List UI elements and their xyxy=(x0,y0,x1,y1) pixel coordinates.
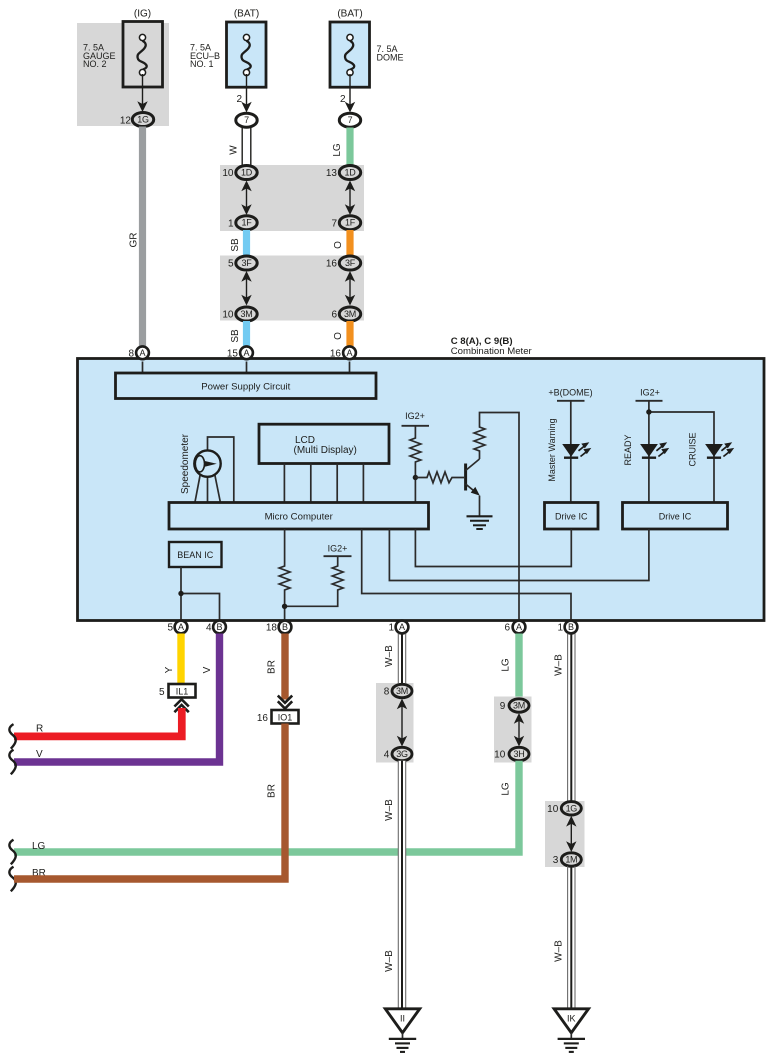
svg-text:B: B xyxy=(282,622,288,632)
svg-text:A: A xyxy=(178,622,184,632)
svg-text:A: A xyxy=(399,622,405,632)
svg-text:BR: BR xyxy=(267,784,278,798)
svg-text:A: A xyxy=(346,348,352,358)
svg-text:8: 8 xyxy=(384,687,390,698)
svg-text:13: 13 xyxy=(326,168,338,179)
wire fuse F1 to connector 1G xyxy=(142,74,144,109)
wire O upper xyxy=(346,230,353,257)
svg-text:IL1: IL1 xyxy=(176,686,189,696)
svg-text:Combination Meter: Combination Meter xyxy=(451,346,533,357)
svg-text:10: 10 xyxy=(222,168,234,179)
svg-text:10: 10 xyxy=(547,804,559,815)
resistor R4 below micro computer xyxy=(279,529,290,621)
svg-text:DOME: DOME xyxy=(377,52,404,62)
wire fuse F3 pin 2 xyxy=(349,74,351,110)
svg-text:5: 5 xyxy=(167,623,173,634)
svg-text:(BAT): (BAT) xyxy=(234,9,259,20)
fuse F1 7.5A GAUGE NO.2 xyxy=(83,43,116,70)
squiggle V end xyxy=(9,750,15,775)
wire W-B column 2 (right) upper xyxy=(568,634,575,803)
wire LG lower to left edge xyxy=(14,761,519,852)
svg-text:3M: 3M xyxy=(241,309,253,319)
wire BEAN IC to pins 5A / 4B xyxy=(181,567,220,621)
wire BR (brown) upper xyxy=(281,634,288,700)
fuse F3 body xyxy=(330,22,370,87)
svg-text:6: 6 xyxy=(504,623,510,634)
LCD (Multi Display) box xyxy=(259,424,389,463)
svg-text:W–B: W–B xyxy=(554,940,565,962)
wire BR lower crossing over LG xyxy=(14,724,285,880)
svg-text:CRUISE: CRUISE xyxy=(688,432,698,466)
svg-text:5: 5 xyxy=(228,259,234,270)
junction block J/B gray background upper xyxy=(220,165,364,231)
svg-text:(Multi Display): (Multi Display) xyxy=(294,445,357,456)
LED D3 cruise xyxy=(705,442,734,458)
svg-text:W–B: W–B xyxy=(384,645,395,667)
svg-text:BR: BR xyxy=(267,660,278,674)
svg-text:1G: 1G xyxy=(566,803,578,813)
svg-text:Speedometer: Speedometer xyxy=(180,433,191,494)
svg-text:Drive IC: Drive IC xyxy=(555,511,588,521)
svg-text:Micro Computer: Micro Computer xyxy=(265,511,334,522)
svg-text:3F: 3F xyxy=(242,258,253,268)
svg-text:GR: GR xyxy=(129,233,140,248)
svg-text:1: 1 xyxy=(388,623,394,634)
svg-text:1F: 1F xyxy=(345,218,356,228)
ground II xyxy=(385,1009,419,1033)
svg-text:1F: 1F xyxy=(242,218,253,228)
svg-text:1G: 1G xyxy=(137,115,149,125)
arrows into IO1 xyxy=(278,696,292,703)
svg-text:IG2+: IG2+ xyxy=(640,388,660,398)
svg-text:BEAN IC: BEAN IC xyxy=(177,550,214,560)
svg-text:Master Warning: Master Warning xyxy=(547,418,557,481)
squiggle BR end xyxy=(9,867,15,892)
svg-text:3G: 3G xyxy=(396,749,408,759)
squiggle R end xyxy=(9,724,15,749)
resistor R2 horizontal to transistor base xyxy=(415,472,464,483)
arrow 3M-3H xyxy=(518,717,520,744)
node junction dot xyxy=(413,475,418,480)
arrows into IL1 xyxy=(174,699,188,706)
wire V (violet) xyxy=(14,634,220,763)
resistor R3 collector xyxy=(474,413,519,622)
svg-text:15: 15 xyxy=(227,348,239,359)
junction gray block 3M/3G xyxy=(376,683,414,763)
svg-text:16: 16 xyxy=(326,259,338,270)
wire W-B column 2 lower xyxy=(568,866,575,1007)
wire drive IC1 to micro computer xyxy=(415,529,571,567)
svg-text:A: A xyxy=(516,622,522,632)
ground (internal) xyxy=(479,496,481,517)
svg-text:A: A xyxy=(243,348,249,358)
wire W (white) xyxy=(242,128,251,167)
svg-text:LG: LG xyxy=(32,841,46,852)
svg-text:W: W xyxy=(229,145,240,155)
svg-text:NO. 2: NO. 2 xyxy=(83,59,107,69)
svg-text:7: 7 xyxy=(348,115,353,125)
resistor R1 vertical xyxy=(410,426,421,503)
wire SB lower xyxy=(243,321,250,346)
drive IC box 2 xyxy=(623,503,728,530)
wires LCD to micro computer xyxy=(284,464,363,503)
svg-text:IG2+: IG2+ xyxy=(328,544,348,554)
svg-text:3: 3 xyxy=(553,855,559,866)
svg-text:5: 5 xyxy=(159,687,165,698)
wire GR (gray) xyxy=(139,127,146,347)
wire W-B column 1 lower xyxy=(398,761,405,1008)
connector 7 xyxy=(236,113,257,127)
svg-text:1: 1 xyxy=(228,218,234,229)
svg-text:(BAT): (BAT) xyxy=(337,9,362,20)
fuse F2 7.5A ECU-B NO.1 xyxy=(190,43,220,70)
svg-text:4: 4 xyxy=(206,623,212,634)
svg-text:3M: 3M xyxy=(396,686,408,696)
svg-text:12: 12 xyxy=(120,115,132,126)
svg-text:9: 9 xyxy=(500,701,506,712)
svg-text:W–B: W–B xyxy=(554,654,565,676)
wire Y (yellow) xyxy=(177,634,184,685)
combination meter box xyxy=(78,359,765,621)
svg-text:B: B xyxy=(216,622,222,632)
svg-text:3M: 3M xyxy=(513,701,525,711)
svg-text:16: 16 xyxy=(330,348,342,359)
junction block gray background lower xyxy=(220,256,364,321)
svg-text:3H: 3H xyxy=(514,749,525,759)
arrow 3F-3M xyxy=(349,275,351,303)
svg-text:7: 7 xyxy=(331,218,337,229)
resistor R5 from IG2+ xyxy=(285,556,344,606)
ground IK xyxy=(554,1009,588,1033)
svg-text:1: 1 xyxy=(557,623,563,634)
wire drive IC2 to micro computer xyxy=(389,529,649,581)
svg-text:READY: READY xyxy=(623,434,633,465)
transistor Q1 xyxy=(464,464,467,491)
micro computer box xyxy=(169,503,429,530)
svg-text:2: 2 xyxy=(340,94,346,105)
svg-text:V: V xyxy=(202,666,213,673)
wire micro computer to pin 1B xyxy=(362,529,571,621)
svg-text:7: 7 xyxy=(244,115,249,125)
svg-text:W–B: W–B xyxy=(384,950,395,972)
svg-text:IG2+: IG2+ xyxy=(405,411,425,421)
arrow 1D-1F xyxy=(246,184,248,212)
svg-text:1D: 1D xyxy=(241,168,253,178)
svg-text:18: 18 xyxy=(266,623,278,634)
svg-text:O: O xyxy=(333,332,344,340)
svg-text:A: A xyxy=(139,348,145,358)
svg-text:LG: LG xyxy=(501,658,512,672)
wire W-B column 1 upper xyxy=(398,634,405,685)
arrow 3F-3M xyxy=(246,275,248,303)
svg-text:IO1: IO1 xyxy=(278,712,293,722)
svg-text:3F: 3F xyxy=(345,258,356,268)
connector 7 xyxy=(339,113,360,127)
wires pins to power supply circuit xyxy=(143,362,350,374)
svg-text:V: V xyxy=(36,749,43,760)
wire O lower xyxy=(346,321,353,346)
wire fuse F2 pin 2 xyxy=(246,74,248,110)
svg-text:R: R xyxy=(36,724,43,735)
svg-text:Y: Y xyxy=(164,666,175,673)
LED D1 master warning xyxy=(562,442,591,458)
arrow 1D-1F xyxy=(349,184,351,212)
fuse F2 body xyxy=(227,22,267,87)
wire LG (light green) xyxy=(346,128,353,167)
svg-text:1D: 1D xyxy=(345,168,357,178)
svg-text:(IG): (IG) xyxy=(134,9,151,20)
svg-text:2: 2 xyxy=(236,94,242,105)
svg-text:O: O xyxy=(333,241,344,249)
svg-text:3M: 3M xyxy=(344,309,356,319)
power supply circuit box xyxy=(116,373,377,399)
svg-text:II: II xyxy=(400,1014,405,1024)
svg-text:IK: IK xyxy=(567,1014,576,1024)
svg-text:6: 6 xyxy=(331,310,337,321)
svg-text:8: 8 xyxy=(128,348,134,359)
svg-text:10: 10 xyxy=(222,310,234,321)
svg-text:10: 10 xyxy=(494,750,506,761)
svg-text:NO. 1: NO. 1 xyxy=(190,59,214,69)
fuse F1 body xyxy=(123,22,163,88)
junction gray block 1G/1M xyxy=(545,801,585,867)
arrow 1G-1M xyxy=(570,819,572,848)
drive IC box 1 xyxy=(545,503,599,530)
svg-text:Drive IC: Drive IC xyxy=(659,511,692,521)
wire R (red) xyxy=(14,708,182,736)
squiggle LG end xyxy=(9,840,15,865)
svg-text:16: 16 xyxy=(257,713,269,724)
svg-text:1M: 1M xyxy=(565,855,577,865)
svg-text:LG: LG xyxy=(501,782,512,796)
wire LG (light green) column xyxy=(515,634,522,700)
gray relay-block background (fuse GAUGE) xyxy=(77,23,169,126)
svg-text:W–B: W–B xyxy=(384,799,395,821)
LED D2 ready xyxy=(640,442,669,458)
svg-text:B: B xyxy=(568,622,574,632)
wire SB upper xyxy=(243,230,250,257)
junction gray block 3M/3H xyxy=(494,697,532,763)
svg-text:LG: LG xyxy=(332,143,343,157)
arrow 3M-3G xyxy=(401,702,403,743)
svg-text:4: 4 xyxy=(384,750,390,761)
svg-text:+B(DOME): +B(DOME) xyxy=(548,388,592,398)
fuse F3 7.5A DOME xyxy=(377,44,404,62)
svg-text:SB: SB xyxy=(230,329,241,343)
BEAN IC box xyxy=(169,542,222,567)
svg-text:SB: SB xyxy=(230,238,241,252)
svg-text:Power Supply Circuit: Power Supply Circuit xyxy=(201,381,290,392)
